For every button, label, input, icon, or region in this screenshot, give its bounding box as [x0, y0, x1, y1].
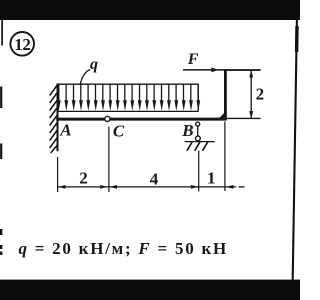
svg-text:C: C	[113, 122, 125, 141]
distributed load bottom tip line	[57, 110, 199, 112]
svg-text:2: 2	[79, 168, 88, 187]
dimension label 1	[207, 168, 216, 187]
beam AB	[56, 118, 226, 121]
svg-text:4: 4	[150, 169, 159, 188]
dimension 2 (vertical) line	[250, 70, 252, 118]
bottom dimension line	[58, 186, 237, 188]
node A label	[59, 121, 71, 140]
extension line at right end	[224, 122, 226, 192]
dimension 2 (vertical) arrowheads	[249, 70, 253, 119]
page right edge line	[293, 20, 297, 280]
q label	[90, 56, 98, 73]
dimension 2 (vertical) extension top	[227, 69, 261, 71]
extension line at C	[108, 127, 110, 192]
dimension label 4	[150, 169, 159, 188]
support B link	[197, 126, 199, 136]
support B ground line	[185, 141, 215, 143]
extension line at B	[198, 151, 200, 192]
wall (fixed support) vertical line	[57, 83, 59, 151]
F label	[187, 51, 199, 68]
node B label	[181, 121, 193, 140]
svg-text:B: B	[181, 121, 193, 140]
page left edge marks	[0, 20, 3, 255]
wall hatching	[50, 86, 57, 154]
scan bottom black band	[0, 280, 302, 300]
svg-text:A: A	[59, 121, 71, 140]
fillet gusset triangle	[217, 110, 227, 120]
svg-text:2: 2	[256, 85, 265, 104]
dimension label 2	[79, 168, 88, 187]
distributed load arrows	[59, 84, 198, 103]
dimension 2 (vertical) extension bottom	[227, 117, 261, 119]
variant number circle 12	[10, 32, 34, 56]
svg-text:q = 20 кН/м; F = 50 кН: q = 20 кН/м; F = 50 кН	[19, 239, 228, 258]
svg-text:12: 12	[14, 35, 30, 54]
support B upper pin	[196, 122, 200, 126]
dimension 2 (vertical) label	[256, 85, 265, 104]
bottom dimension arrowheads	[58, 185, 234, 189]
distributed load right edge	[197, 84, 199, 111]
svg-text:1: 1	[207, 168, 216, 187]
node C pin circle	[105, 116, 110, 121]
force F arrowhead	[211, 68, 219, 73]
extension line at A	[57, 157, 59, 192]
distributed load q top line	[57, 83, 199, 85]
svg-text:q: q	[90, 56, 98, 73]
bottom dimension line dash	[239, 186, 245, 188]
force F line	[183, 69, 261, 71]
distributed load arrowheads	[57, 100, 200, 111]
support B ground hatching	[187, 142, 208, 151]
q leader line	[80, 70, 90, 85]
support B lower pin	[196, 136, 201, 141]
node C label	[113, 122, 125, 141]
right vertical member	[224, 69, 227, 120]
svg-text:F: F	[187, 51, 199, 68]
caption: q = 20 kN/m; F = 50 kN	[19, 239, 228, 258]
scan top black band	[0, 0, 302, 20]
